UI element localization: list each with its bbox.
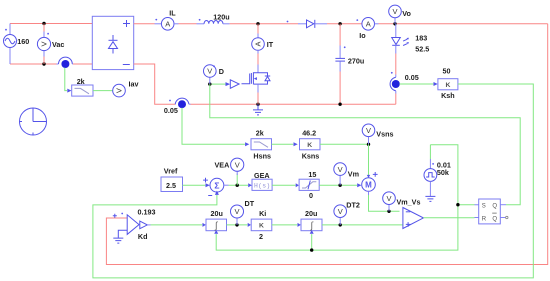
wire drain branch bbox=[257, 24, 259, 34]
svg-text:V: V bbox=[386, 194, 391, 203]
svg-text:Iav: Iav bbox=[129, 80, 139, 89]
svg-text:VEA: VEA bbox=[215, 161, 230, 170]
svg-text:Vac: Vac bbox=[52, 40, 64, 49]
svg-text:Vm: Vm bbox=[348, 170, 359, 179]
wire sensor2 to Hsns bbox=[182, 108, 245, 145]
svg-text:S: S bbox=[482, 203, 486, 209]
wire Vref to summer bbox=[183, 184, 206, 186]
node mosfet source junction bbox=[256, 103, 259, 106]
wire inductor to diode bbox=[230, 23, 298, 25]
ammeter IL bbox=[161, 9, 178, 30]
wire limiter to multiplier bbox=[319, 184, 357, 186]
ammeter Io bbox=[359, 18, 378, 41]
voltmeter DT2 bbox=[334, 200, 360, 225]
node cap bottom junction bbox=[338, 103, 341, 106]
current sensor ISEN1 (input) bbox=[57, 57, 74, 68]
svg-text:Σ: Σ bbox=[214, 181, 219, 191]
wire sensor3 to Ksh bbox=[400, 83, 434, 85]
svg-text:Vsns: Vsns bbox=[376, 130, 393, 139]
wire Hsns to Ksns bbox=[272, 143, 294, 145]
svg-text:GEA: GEA bbox=[254, 171, 270, 180]
svg-text:H(s): H(s) bbox=[254, 183, 271, 190]
transistor Q1 MOSFET bbox=[242, 65, 271, 105]
node DT junction bbox=[235, 223, 238, 226]
svg-text:K: K bbox=[445, 82, 450, 89]
svg-text:15: 15 bbox=[308, 170, 316, 179]
svg-text:2.5: 2.5 bbox=[166, 181, 176, 190]
svg-text:A: A bbox=[254, 41, 263, 46]
current sensor ISEN3 0.05 (output shunt) bbox=[390, 73, 419, 104]
node cap top junction bbox=[338, 22, 341, 25]
ground (power) bbox=[253, 104, 263, 115]
svg-text:120u: 120u bbox=[213, 12, 229, 21]
node VEA junction bbox=[236, 184, 239, 187]
svg-text:V: V bbox=[234, 207, 239, 216]
voltmeter DT bbox=[231, 199, 255, 225]
gain Ksh 50 bbox=[434, 66, 458, 100]
wire top rail left (source to bridge) bbox=[10, 23, 92, 25]
wire integrator1 to Ki bbox=[227, 224, 248, 226]
wire Kd to integrator1 bbox=[151, 224, 203, 226]
voltmeter Vsns bbox=[362, 124, 393, 144]
svg-text:Hsns: Hsns bbox=[253, 151, 271, 160]
svg-text:270u: 270u bbox=[348, 56, 364, 65]
wire integrator2 to comparator plus bbox=[322, 224, 403, 226]
svg-text:0: 0 bbox=[309, 191, 313, 200]
svg-text:M: M bbox=[365, 181, 372, 190]
diode bridge BD1 bbox=[92, 16, 133, 69]
wire bottom rail to output bbox=[191, 103, 396, 105]
svg-text:IL: IL bbox=[169, 9, 176, 18]
flip-flop FF1 S-R bbox=[475, 199, 508, 224]
svg-text:50k: 50k bbox=[437, 168, 449, 177]
wire Ksns to Vsns node bbox=[320, 143, 369, 145]
inductor L1 120u bbox=[197, 12, 230, 23]
svg-text:DT: DT bbox=[245, 199, 255, 208]
svg-text:Io: Io bbox=[359, 31, 366, 40]
svg-text:D: D bbox=[219, 67, 224, 76]
integrator I2 20u bbox=[298, 209, 323, 234]
svg-text:V: V bbox=[235, 161, 240, 170]
wire diode to Io bbox=[327, 23, 362, 25]
wire gate drive from flip-flop Q bbox=[210, 84, 520, 205]
svg-text:Vref: Vref bbox=[164, 166, 178, 175]
wire GEA to limiter bbox=[272, 184, 295, 186]
wire bottom power rail bbox=[134, 64, 176, 104]
terminal markers bbox=[5, 19, 434, 215]
gate driver bbox=[210, 80, 239, 89]
node A junction dots (Vac taps) bbox=[42, 22, 45, 25]
node reset junction bbox=[310, 248, 313, 251]
summer S1 bbox=[203, 178, 228, 196]
svg-text:20u: 20u bbox=[211, 209, 223, 218]
svg-text:160: 160 bbox=[17, 37, 29, 46]
multiplier M1 bbox=[357, 172, 377, 195]
wire right edge feedback (Vo loop) bbox=[106, 24, 547, 265]
svg-text:Vm_Vs: Vm_Vs bbox=[397, 197, 421, 206]
square-wave source VP1 0.01/50k bbox=[424, 145, 451, 202]
svg-text:Vo: Vo bbox=[402, 9, 411, 18]
voltmeter Vm bbox=[334, 163, 359, 185]
svg-text:V: V bbox=[207, 67, 212, 76]
current sensor ISEN2 0.05 (inductor current) bbox=[164, 98, 191, 115]
svg-text:Ksns: Ksns bbox=[302, 151, 320, 160]
clock display bbox=[20, 108, 47, 135]
wire Io to Vo node bbox=[379, 23, 548, 25]
svg-text:K: K bbox=[259, 223, 264, 230]
svg-text:Kd: Kd bbox=[138, 232, 148, 241]
capacitor C1 270u bbox=[335, 24, 364, 104]
wire comparator out to R input bbox=[423, 217, 474, 219]
node Vsns junction bbox=[367, 143, 370, 146]
transfer function GEA H(s) bbox=[248, 171, 272, 191]
wire pulse to S input and reset rail bbox=[216, 145, 458, 250]
node gate drive junction bbox=[208, 82, 211, 85]
svg-text:0.05: 0.05 bbox=[405, 73, 419, 82]
filter FLT1 2k (Iav lowpass) bbox=[67, 77, 93, 96]
AC source VSIN 160 bbox=[4, 24, 30, 65]
gain Ki 2 bbox=[248, 209, 272, 241]
svg-text:IT: IT bbox=[267, 40, 274, 49]
svg-text:Ksh: Ksh bbox=[441, 91, 455, 100]
wire IL to inductor bbox=[179, 23, 197, 25]
node Vm junction bbox=[338, 184, 341, 187]
wire Vsns node down to multiplier bbox=[368, 144, 370, 175]
svg-text:V: V bbox=[115, 88, 124, 93]
svg-text:V: V bbox=[40, 41, 49, 46]
current probe IT bbox=[252, 38, 274, 65]
svg-text:2: 2 bbox=[259, 232, 263, 241]
node DT2 junction bbox=[339, 223, 342, 226]
node Vo junction bbox=[393, 22, 396, 25]
svg-text:0.05: 0.05 bbox=[164, 106, 178, 115]
svg-text:Q: Q bbox=[492, 217, 497, 223]
current probe Iav bbox=[113, 80, 139, 97]
svg-text:DT2: DT2 bbox=[346, 200, 360, 209]
comparator CMP1 bbox=[403, 208, 424, 229]
lowpass filter Hsns 2k bbox=[245, 128, 271, 160]
comparator Kd 0.193 bbox=[113, 207, 156, 243]
wire multiplier out to comparator minus bbox=[369, 195, 400, 211]
wire filter to Iav probe bbox=[93, 90, 113, 92]
svg-text:K: K bbox=[307, 142, 312, 149]
svg-text:2k: 2k bbox=[77, 77, 85, 86]
wire summer to GEA bbox=[229, 184, 249, 186]
wire bottom rail left (source to bridge) bbox=[10, 63, 57, 65]
voltmeter VEA bbox=[215, 158, 244, 185]
node drain junction bbox=[256, 22, 259, 25]
LED lamp load 183/52.5 bbox=[392, 24, 430, 75]
wire bridge+ to ammeter IL bbox=[134, 23, 155, 25]
diode D1 (boost diode) bbox=[298, 20, 327, 28]
source Vref 2.5 bbox=[161, 166, 183, 191]
wire Ki to integrator2 bbox=[272, 224, 298, 226]
svg-text:20u: 20u bbox=[305, 209, 317, 218]
svg-text:V: V bbox=[366, 126, 371, 135]
svg-text:46.2: 46.2 bbox=[302, 128, 316, 137]
svg-text:A: A bbox=[165, 20, 170, 29]
svg-text:Ki: Ki bbox=[259, 209, 266, 218]
svg-text:V: V bbox=[338, 207, 343, 216]
svg-text:A: A bbox=[366, 20, 371, 29]
voltmeter Vo bbox=[389, 5, 412, 24]
wire sensor1 to filter bbox=[65, 68, 67, 91]
gain Ksns 46.2 bbox=[294, 128, 321, 160]
integrator I1 20u bbox=[203, 209, 227, 234]
svg-text:V: V bbox=[392, 7, 397, 16]
wire Ksh output loop to summer minus bbox=[93, 84, 533, 278]
limiter 15/0 bbox=[296, 170, 320, 200]
voltmeter Vm_Vs bbox=[383, 192, 421, 211]
svg-text:2k: 2k bbox=[256, 128, 264, 137]
node S junction bbox=[456, 203, 459, 206]
svg-text:R: R bbox=[482, 217, 487, 223]
svg-text:50: 50 bbox=[443, 66, 451, 75]
svg-text:Q: Q bbox=[492, 203, 497, 209]
svg-text:V: V bbox=[338, 165, 343, 174]
voltmeter D bbox=[204, 65, 225, 84]
svg-text:52.5: 52.5 bbox=[415, 45, 429, 54]
svg-text:0.193: 0.193 bbox=[138, 207, 156, 216]
node Vm_Vs junction bbox=[387, 210, 390, 213]
svg-text:183: 183 bbox=[415, 33, 427, 42]
voltmeter Vac bbox=[37, 24, 64, 65]
